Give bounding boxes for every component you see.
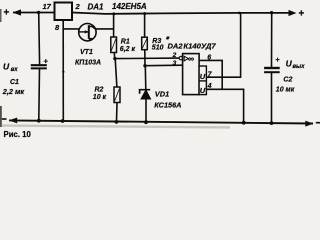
resistor R2 bottom lead <box>116 103 119 122</box>
zener VD1 cathode bar <box>140 90 151 94</box>
capacitor C1 plates <box>31 64 47 66</box>
svg-text:VD1: VD1 <box>155 90 169 99</box>
node C2 top junction <box>270 11 273 14</box>
transistor VT1 gate lead with arrow <box>79 31 88 33</box>
wire R1 to R2 <box>115 59 117 87</box>
op-amp gain symbol triangle <box>184 56 188 61</box>
shadow under rail <box>2 126 230 128</box>
resistor R1 body <box>111 37 117 53</box>
node pin8 mid blob <box>62 71 64 73</box>
arrow bottom right <box>305 121 313 127</box>
svg-text:10 к: 10 к <box>93 94 107 101</box>
node R1 top junction <box>112 12 115 15</box>
arrow input left <box>13 9 22 15</box>
svg-text:142ЕН5А: 142ЕН5А <box>112 2 147 11</box>
capacitor C1 bottom lead <box>38 68 41 120</box>
transistor VT1 channel <box>88 25 90 39</box>
node R3 top junction <box>143 12 146 15</box>
node pin4 bottom junction <box>242 121 246 125</box>
resistor R3 bottom lead <box>144 50 146 66</box>
resistor R3 body <box>142 37 148 50</box>
node R1 bottom junction <box>113 57 116 60</box>
svg-text:17: 17 <box>43 2 52 11</box>
svg-text:510: 510 <box>152 44 164 51</box>
op-amp DA2 main box <box>183 54 200 95</box>
svg-text:∞: ∞ <box>188 54 194 64</box>
wire op-amp pin 4 to bottom rail <box>206 89 243 122</box>
node R3 bottom junction <box>143 64 146 67</box>
resistor R1 top lead <box>113 14 115 37</box>
wire op-amp pin 6 output <box>199 60 222 89</box>
transistor VT1 circle <box>79 24 96 41</box>
svg-text:DA1: DA1 <box>88 2 105 11</box>
resistor R2 body <box>114 87 120 103</box>
node pin8 bottom junction <box>61 119 65 123</box>
svg-text:К140УД7: К140УД7 <box>183 41 216 50</box>
wire bottom rail <box>9 120 313 123</box>
minus label input <box>2 118 7 120</box>
svg-text:+: + <box>4 8 10 19</box>
node opamp supply top <box>238 12 241 15</box>
wire to op-amp pin 3 <box>145 64 183 67</box>
svg-text:DA2: DA2 <box>168 41 184 50</box>
svg-text:U: U <box>3 61 10 71</box>
resistor R1 bottom lead <box>113 53 116 59</box>
op-amp regulator DA1 box <box>55 3 73 21</box>
wire DA1 pin8 down and to VT1 gate <box>63 20 80 29</box>
svg-text:R2: R2 <box>95 87 104 94</box>
capacitor C2 top lead <box>271 13 273 67</box>
arrow output right plus <box>289 10 297 16</box>
node C1 bottom junction <box>37 119 41 123</box>
svg-text:вх: вх <box>11 67 19 73</box>
svg-text:+: + <box>275 55 280 64</box>
wire top rail right segment <box>72 13 290 14</box>
minus label output <box>316 122 320 124</box>
wire to op-amp pin 2 <box>115 57 179 60</box>
svg-text:2: 2 <box>172 52 177 59</box>
transistor VT1 drain lead to R1 line <box>89 26 114 29</box>
paper background <box>0 0 320 140</box>
wire pin8 node down to bottom rail <box>62 29 64 121</box>
scan smudge left edge bottom <box>0 106 2 127</box>
wire op-amp pin 7 to top rail <box>206 13 240 77</box>
resistor R3 top lead <box>144 14 146 38</box>
svg-text:КП103А: КП103А <box>75 60 101 67</box>
svg-text:R1: R1 <box>121 39 130 46</box>
scan smudge left edge top <box>0 9 2 22</box>
svg-text:VT1: VT1 <box>80 49 93 56</box>
svg-text:C2: C2 <box>283 76 292 83</box>
wire top rail left segment <box>13 12 55 14</box>
inversion circle pin2 <box>179 56 182 59</box>
op-amp DA2 side column <box>199 66 206 95</box>
svg-text:10 мк: 10 мк <box>276 86 295 93</box>
transistor VT1 source foot <box>89 38 93 40</box>
node C2 bottom junction <box>270 121 274 125</box>
node R2 bottom junction <box>115 120 119 124</box>
svg-text:6,2 к: 6,2 к <box>120 46 136 53</box>
svg-text:C1: C1 <box>10 79 19 86</box>
arrow bottom left <box>9 118 17 124</box>
capacitor C2 plates <box>264 67 280 69</box>
svg-text:КС156А: КС156А <box>154 101 181 110</box>
node VD1 bottom junction <box>144 120 148 124</box>
svg-text:+: + <box>299 9 305 20</box>
blotch artifact <box>166 36 170 39</box>
svg-text:3: 3 <box>173 60 177 67</box>
svg-text:Рис. 10: Рис. 10 <box>4 130 32 139</box>
svg-text:U: U <box>200 72 206 81</box>
wire R3 to VD1 <box>144 66 147 91</box>
svg-text:2,2 мк: 2,2 мк <box>2 87 25 96</box>
node C1 top junction <box>37 11 40 14</box>
svg-text:U: U <box>200 86 206 95</box>
svg-text:вых: вых <box>292 64 305 70</box>
capacitor C2 bottom lead <box>271 72 273 123</box>
zener VD1 triangle <box>141 90 151 99</box>
zener VD1 anode lead <box>145 99 147 122</box>
svg-text:2: 2 <box>75 2 81 11</box>
capacitor C1 top lead <box>38 13 41 65</box>
